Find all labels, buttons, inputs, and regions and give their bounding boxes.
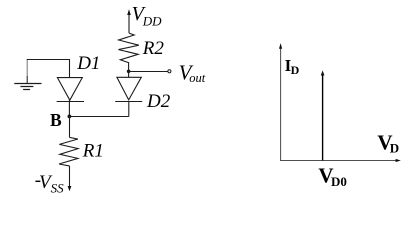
node junction dot (Vout node) [127, 70, 131, 74]
label ID [285, 56, 300, 77]
ground [14, 84, 41, 90]
node B dot [68, 115, 72, 119]
ground stub [26, 60, 28, 77]
svg-text:R1: R1 [82, 141, 104, 162]
label Vout [179, 60, 206, 85]
wire node B to D2 cathode [69, 116, 128, 118]
graph vertical axis ID [279, 43, 282, 161]
svg-text:SS: SS [51, 180, 65, 194]
svg-text:R2: R2 [142, 38, 165, 59]
label VDD [132, 3, 163, 28]
svg-text:D0: D0 [331, 174, 347, 189]
diode D1 [57, 78, 84, 117]
wire to output terminal [129, 71, 168, 73]
svg-text:B: B [50, 110, 62, 130]
diode D2 [115, 71, 142, 116]
resistor R1 [59, 117, 78, 192]
svg-text:D: D [291, 63, 300, 77]
svg-text:D: D [390, 141, 399, 156]
label -VSS [35, 170, 64, 195]
wire from ground to D1 anode [27, 60, 70, 78]
resistor R2 [119, 33, 139, 70]
label VD0 [318, 164, 346, 189]
svg-text:D1: D1 [76, 53, 100, 74]
output terminal circle [168, 70, 171, 73]
svg-text:DD: DD [142, 14, 162, 29]
graph vertical spike at VD0 [321, 70, 325, 160]
power rail arrow VDD [127, 9, 131, 33]
svg-text:D2: D2 [146, 91, 171, 112]
svg-text:out: out [189, 71, 206, 85]
label VD [377, 131, 399, 156]
graph horizontal axis VD [280, 159, 401, 162]
